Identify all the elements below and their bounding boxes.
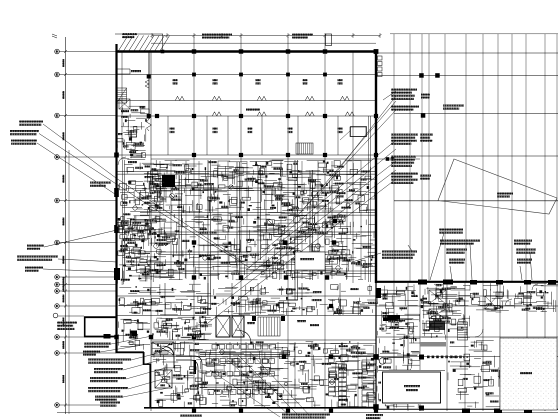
canopy outline polygon: [438, 159, 557, 214]
axis bubble row y=291: [55, 289, 60, 294]
axis bubble row y=51.5: [55, 49, 60, 54]
top annotation text 1: [202, 34, 232, 36]
axis grid line y=115.5: [59, 115, 116, 117]
wall cell stack left of pool: [362, 360, 374, 407]
plant room duct run y=252: [158, 251, 345, 253]
leader left 2: [39, 134, 153, 209]
bottom annotation text: [282, 414, 330, 416]
floor line y=74.5: [116, 74, 377, 76]
plant room duct vertical x=311: [309, 170, 311, 280]
leader left 5: [58, 259, 117, 262]
axis break mark: [52, 34, 57, 38]
grid line x=288: [287, 37, 289, 411]
axis grid line y=353: [59, 352, 116, 354]
room labels second row: [170, 128, 175, 130]
plant room duct run y=262: [130, 261, 330, 263]
zigzag break on wall x=149: [147, 119, 152, 131]
small rect room 350 127: [350, 127, 366, 137]
columns row y=116: [155, 114, 159, 118]
plant room duct vertical x=296: [294, 160, 296, 300]
plant room duct run y=172: [117, 171, 376, 173]
elevator lobby labels: [383, 294, 388, 296]
equipment right of left wall: [117, 216, 150, 285]
leader from detail box: [340, 131, 350, 140]
bottom-left annotation stack 2: [83, 351, 100, 353]
bottom-left leaders: [111, 336, 152, 344]
top dimension line: [152, 35, 380, 37]
canopy line above top wall: [151, 42, 376, 44]
small lift upper left: [119, 99, 130, 109]
floor line y=100.5: [116, 100, 377, 102]
axis bubble row y=115.5: [55, 113, 60, 118]
stacked small boxes column: [339, 364, 347, 368]
plant room duct run y=271: [140, 270, 376, 272]
axis grid line y=405: [59, 404, 116, 406]
annotation block left 7: [57, 322, 77, 324]
canopy hatch strokes top-left: [118, 36, 170, 52]
dimension tick marks left: [64, 50, 67, 53]
columns row y=337: [149, 335, 153, 339]
colonnade columns: [419, 73, 424, 78]
columns row y=356.5: [282, 354, 286, 358]
annotation right block 3: [391, 134, 418, 136]
stair upper left: [117, 88, 127, 103]
columns bottom row y=410.7: [192, 409, 196, 413]
bottom annotation text 2: [180, 415, 202, 417]
mid band room labels: [247, 322, 255, 324]
door arcs right building: [505, 299, 512, 306]
door arc left wall: [118, 157, 126, 165]
leaders lower-right to wall: [450, 266, 452, 280]
colonnade horizontal line y=75.5: [377, 75, 558, 77]
kitchen zone clutter: [152, 341, 376, 408]
annotation right block 4: [391, 156, 416, 158]
plant room duct vertical x=259: [257, 165, 259, 260]
bottom-left annotation stack 7: [95, 396, 123, 398]
black wall bar kitchen: [194, 360, 197, 374]
grid line x=122: [121, 51, 123, 160]
fan coil annotation: [382, 251, 417, 253]
plant room duct vertical x=238: [236, 162, 238, 275]
lobby dotted room: [500, 338, 557, 410]
kitchen AHU box 2: [155, 370, 172, 388]
column at vestibule edge: [161, 50, 165, 54]
corridor line y=116: [116, 115, 377, 117]
right edge line lower: [556, 283, 558, 410]
pool rect bottom: [381, 370, 442, 404]
columns right of wall y=159: [386, 157, 390, 161]
right building elevator X 2: [429, 309, 446, 319]
leader left 3: [37, 143, 118, 196]
grid line x=353: [352, 51, 354, 283]
annotation right col2 a: [420, 134, 433, 136]
axis bubble row y=405: [55, 403, 60, 408]
kitchen equipment row 1: [212, 345, 218, 350]
bottom-left annotation stack 3: [88, 359, 131, 361]
plant zone left wall band equipment: [117, 106, 150, 159]
wall piers lower-right: [418, 280, 427, 285]
AHU solid black unit: [162, 175, 175, 187]
annotation right block 2: [391, 106, 419, 108]
bottom-left annotation stack 4: [94, 368, 123, 370]
stair block mid band: [258, 317, 280, 336]
mid band room walls: [164, 283, 166, 316]
roof shaft rect top: [326, 34, 332, 46]
lower-left small rooms inside wall: [118, 319, 150, 350]
axis grid line y=157: [59, 156, 116, 158]
kitchen long benches: [200, 352, 290, 354]
columns row y=242.5: [192, 240, 196, 244]
left axis dimension line: [65, 37, 67, 414]
plant room duct run y=213: [140, 212, 376, 214]
annotation block left 2: [10, 130, 39, 132]
columns row y=155: [192, 153, 196, 157]
right building stair: [458, 322, 468, 340]
fan coil leader: [352, 253, 381, 262]
annotation right col2 b: [420, 175, 431, 177]
columns row y=74.5: [192, 73, 196, 77]
annotation block left 6: [25, 267, 43, 269]
annotation lower-right 2: [440, 240, 480, 242]
axis bubble row y=337: [55, 335, 60, 340]
plant room duct run y=232: [150, 231, 360, 233]
plant room duct run y=188: [150, 187, 340, 189]
grid line x=194: [193, 37, 195, 411]
columns at pool corners: [373, 354, 379, 360]
right building corridor lines: [376, 305, 558, 307]
wall chunk right building top: [383, 315, 400, 321]
wall right thick upper: [375, 51, 377, 283]
annotation lower-right 1: [439, 229, 463, 231]
pipe pair along left wall: [122, 160, 124, 280]
right building partitions: [393, 283, 395, 411]
leader left 1: [43, 124, 116, 178]
right building elevator X 1: [429, 290, 446, 304]
axis grid line y=291: [59, 290, 116, 292]
floor line y=159: [151, 158, 420, 160]
annotation block left 5: [17, 256, 58, 258]
dash marks right of pumps: [446, 356, 468, 358]
light room in plant area: [295, 252, 325, 270]
annotation lower-right col2 1: [514, 240, 532, 242]
inner wall x=149 upper: [148, 52, 150, 119]
stair mid right: [296, 143, 313, 154]
axis grid line y=277: [59, 276, 116, 278]
annotation block left 1: [19, 121, 43, 123]
grid line x=241: [240, 37, 242, 411]
columns row y=51.5: [192, 49, 196, 53]
circle vent bottom: [379, 358, 385, 364]
right mid room clutter light: [448, 341, 500, 408]
leader fan from right annotations into plant room: [318, 96, 396, 196]
bottom-left annotation stack 8: [100, 402, 120, 404]
annotation lower-right 3: [446, 249, 467, 251]
riser strip x=145-165: [146, 160, 167, 282]
grid line x=151: [150, 51, 152, 411]
top annotation text 2: [292, 34, 313, 36]
wall step lower-left: [116, 351, 145, 353]
gray service band: [420, 342, 446, 347]
kitchen equipment row 4: [208, 390, 214, 395]
wall lower-right thick horizontal: [376, 281, 558, 283]
door bowtie vertical on x=149: [145, 80, 149, 88]
door symbols on line y=100.5: [175, 96, 184, 100]
axis bubble row y=306: [55, 304, 60, 309]
damper circles plant zone: [133, 185, 350, 270]
kitchen duct curves: [160, 346, 174, 368]
bottom-left annotation stack 5: [90, 377, 126, 379]
annotation colonnade bottom-left: [421, 94, 430, 96]
right building clutter: [377, 284, 420, 409]
canopy label top-left: [122, 33, 137, 35]
wall right thick lower: [375, 283, 377, 411]
kitchen equipment row 2: [206, 359, 211, 364]
colonnade vertical grid lines: [393, 34, 395, 281]
kitchen zone boundary lines: [151, 339, 376, 341]
kitchen equipment row 3: [206, 372, 211, 377]
pump row inside left wall: [121, 222, 147, 231]
plant room duct vertical x=180: [178, 175, 180, 270]
annotation block left 3: [11, 140, 37, 142]
axis bubble row y=277: [55, 275, 60, 280]
canopy top-left boundary line: [115, 33, 163, 35]
plant equipment cluster upper: [118, 160, 376, 213]
leader left 6: [43, 269, 117, 272]
axis grid line y=284.5: [59, 284, 116, 286]
colonnade top line: [390, 33, 558, 35]
annotation lower-right 4: [449, 259, 465, 261]
kitchen duct elbow large: [176, 356, 202, 394]
columns row y=277.5: [192, 275, 196, 279]
right building lift X small: [485, 296, 498, 309]
colonnade horizontal line y=113.5: [394, 113, 558, 115]
axis grid line y=242.5: [59, 242, 116, 244]
bottom annotation text 3: [366, 414, 383, 416]
axis bubble row y=353: [55, 351, 60, 356]
grid line x=325: [324, 37, 326, 411]
axis bubble row y=157: [55, 155, 60, 160]
annotation top-right fan block: [391, 89, 417, 91]
mid band partition lines: [116, 295, 376, 297]
right building east rooms clutter: [476, 283, 558, 312]
elevator shaft mid: [216, 316, 230, 337]
bottom-left annotation stack 1: [84, 343, 111, 345]
material hoist label: [497, 193, 513, 195]
axis grid line y=337: [59, 336, 116, 338]
annotation 2haolou shaft: [443, 105, 464, 107]
rect detail box x350 y127: [351, 127, 367, 137]
axis grid line y=200.5: [59, 200, 116, 202]
axis grid line y=51.5: [59, 51, 116, 53]
kitchen AHU box 1: [152, 342, 174, 355]
wall top thick: [116, 50, 378, 52]
annotation lower-right col2 3: [517, 259, 532, 261]
right building room line y=296: [447, 295, 530, 297]
plant equipment cluster mid: [118, 213, 376, 280]
mid band clutter: [119, 296, 377, 315]
colonnade horizontal line y=53: [377, 52, 558, 54]
left kitchen fans: [155, 317, 212, 340]
wall left outer thick: [115, 44, 117, 353]
right building machine room dark: [429, 321, 445, 330]
colonnade horizontal line y=201: [394, 200, 558, 202]
leader short top-right corner: [383, 91, 396, 100]
door symbols on line y=116: [212, 112, 221, 116]
axis bubble row y=74.5: [55, 72, 60, 77]
corridor label: [246, 109, 260, 111]
fire lift label: [90, 182, 111, 184]
axis grid line y=74.5: [59, 74, 116, 76]
wall bottom edge thick: [144, 407, 376, 409]
colonnade horizontal line y=156: [394, 155, 558, 157]
axis bubble y=315: [53, 313, 58, 318]
annotation right block 5: [391, 173, 418, 175]
wall louver rects right wall top: [378, 56, 383, 60]
pump row above pool: [427, 356, 462, 359]
axis grid line y=306: [59, 305, 116, 307]
bottom annotation fan leaders: [228, 360, 290, 416]
leader left 4: [44, 230, 117, 247]
damper circles kitchen zone: [220, 350, 335, 398]
kitchen riser verticals: [215, 342, 217, 407]
floor line y=155: [116, 154, 377, 156]
annotation block left 4: [27, 245, 44, 247]
dimension figures left: [62, 59, 64, 67]
columns on left wall: [114, 153, 119, 158]
step room lower-left: [84, 316, 116, 318]
toilet room upper left: [116, 68, 130, 70]
plant room duct vertical x=209: [207, 160, 209, 310]
bottom dimension line: [57, 412, 558, 414]
room labels upper row: [173, 79, 178, 81]
plant riser pipes verticals: [159, 161, 161, 279]
axis bubble row y=284.5: [55, 282, 60, 287]
axis bubble row y=200.5: [55, 198, 60, 203]
axis bubble row y=242.5: [55, 240, 60, 245]
second band partitions: [167, 116, 169, 155]
annotation lower-right col2 2: [516, 249, 536, 251]
pipe pair along right wall: [368, 116, 370, 282]
bottom-left annotation stack 6: [88, 387, 128, 389]
